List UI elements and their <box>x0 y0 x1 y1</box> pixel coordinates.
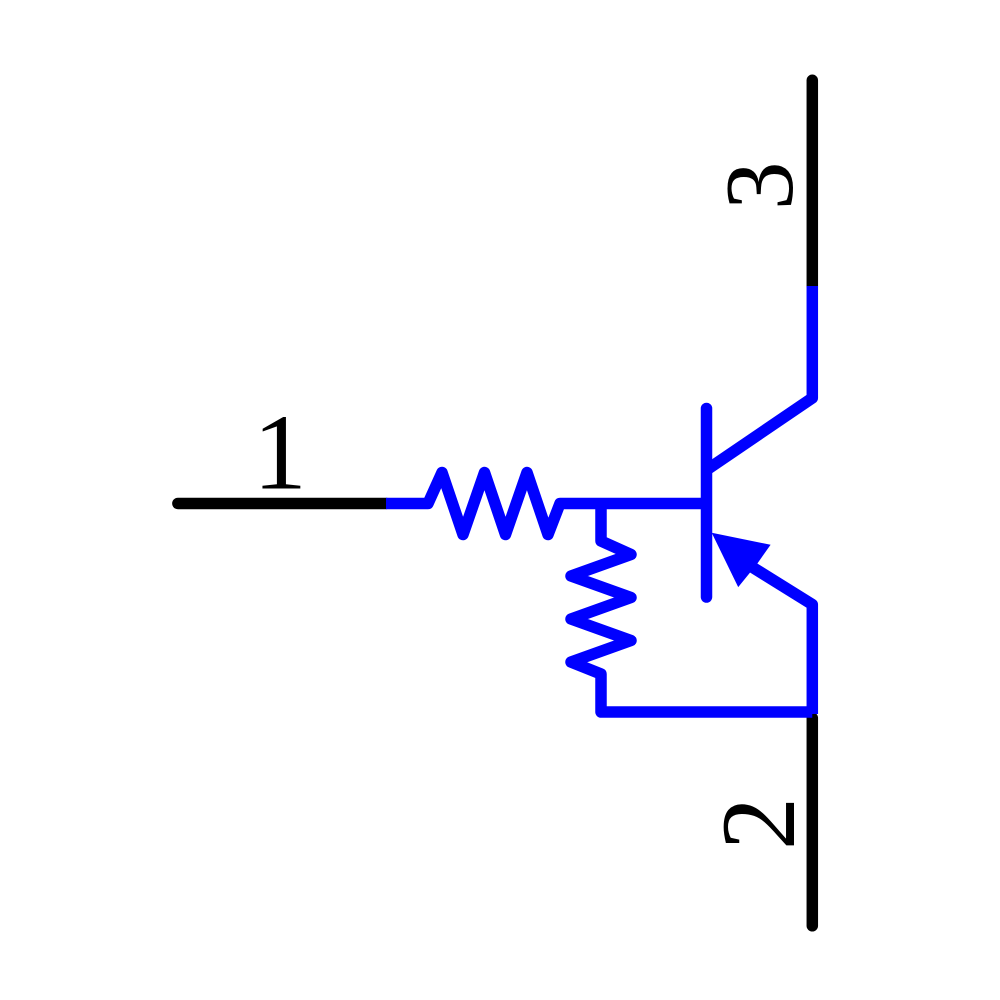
svg-text:1: 1 <box>253 394 307 513</box>
svg-text:2: 2 <box>700 797 817 850</box>
svg-text:3: 3 <box>706 162 813 211</box>
